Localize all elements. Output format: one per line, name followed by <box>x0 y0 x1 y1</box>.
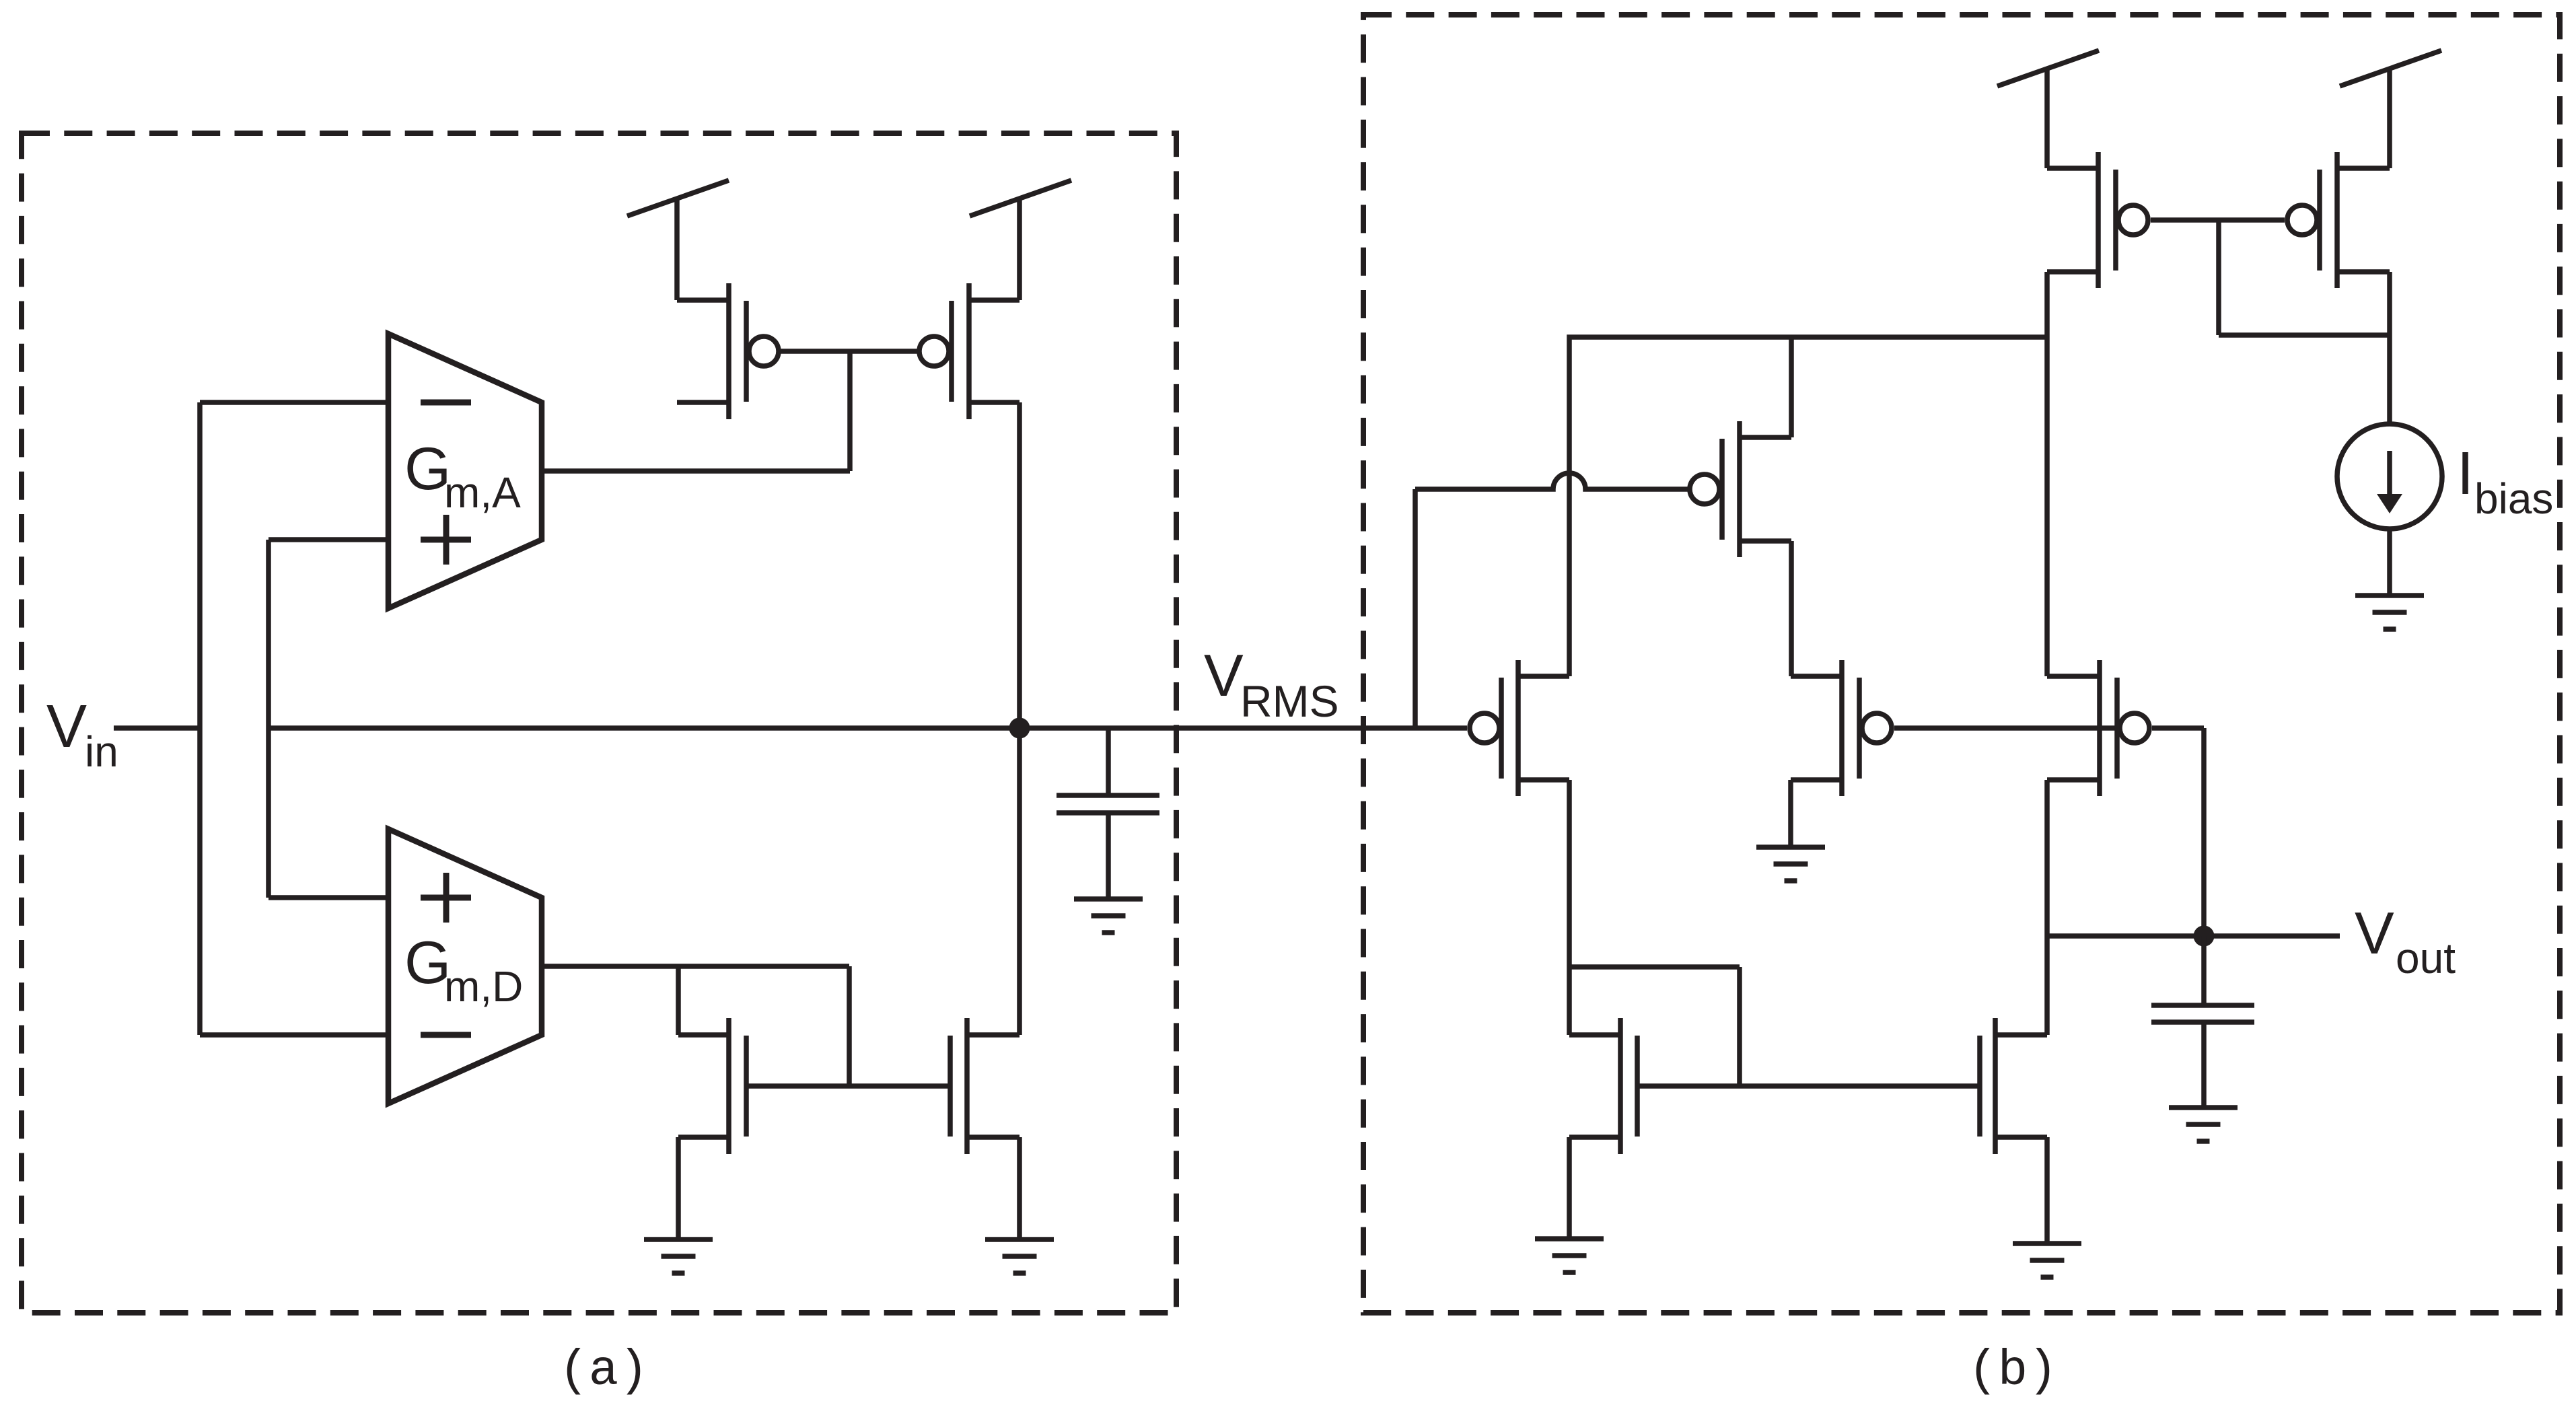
wire Gm,A inverting input <box>200 400 388 405</box>
svg-text:I: I <box>2457 440 2474 507</box>
wire P1 diode connection <box>847 351 853 471</box>
label Gm,A <box>404 435 521 517</box>
transistor N2 (NMOS) <box>950 1018 1019 1154</box>
wire P2 drain / N2 drain vertical <box>1017 402 1022 1035</box>
wire P5 source rail <box>1569 337 2046 676</box>
svg-text:V: V <box>46 693 87 760</box>
wire P5 drain vertical <box>1567 780 1572 1035</box>
ground of N1 <box>644 1239 713 1273</box>
ground of Ibias <box>2355 596 2424 629</box>
junction node Vout <box>2194 926 2215 947</box>
wire N4 source <box>2044 1137 2050 1244</box>
node VRMS label <box>1204 642 1339 726</box>
VDD supply of P8 <box>1997 50 2099 168</box>
wire Gm,A non-inverting input <box>269 537 388 542</box>
ground of C1 <box>1074 899 1143 933</box>
transistor P8 (PMOS) <box>2047 152 2148 288</box>
ground of C2 <box>2169 1108 2238 1141</box>
wire Gm,D non-inverting input <box>269 895 388 900</box>
ground of N4 <box>2013 1244 2081 1277</box>
node Vin label <box>46 693 118 776</box>
svg-text:in: in <box>85 727 118 776</box>
wire P1-P2 gate link <box>780 349 918 354</box>
wire P9 drain to Ibias <box>2387 272 2392 424</box>
op-amp Gm,D <box>388 829 542 1104</box>
svg-text:(a): (a) <box>559 1343 648 1400</box>
wire P7 gate to Vout <box>2152 728 2204 936</box>
svg-text:RMS: RMS <box>1240 676 1339 726</box>
block (a) dashed box <box>22 133 1176 1313</box>
wire Gm,D inverting input <box>200 1032 388 1038</box>
wire Gm,D output <box>542 964 849 969</box>
VDD supply of P9 <box>2340 50 2441 168</box>
label Gm,D <box>404 929 523 1011</box>
wire N1 drain connection <box>676 966 681 1035</box>
wire N3-N4 gate link <box>1637 1083 1980 1089</box>
transistor N1 (NMOS) <box>678 1018 746 1154</box>
transistor N3 (NMOS) <box>1569 1018 1637 1154</box>
wire P6 drain to ground <box>1788 780 1793 847</box>
wire non-inverting input chain <box>266 540 271 898</box>
wire P8 drain to P7 source <box>2044 272 2050 676</box>
svg-text:V: V <box>2355 900 2394 966</box>
svg-text:V: V <box>1204 642 1244 709</box>
wire P5 gate-row feed with hop <box>1412 489 1418 728</box>
transistor P7 (PMOS) <box>2047 660 2149 796</box>
capacitor C2 <box>2151 936 2254 1108</box>
svg-text:(b): (b) <box>1968 1343 2057 1400</box>
transistor P6 (PMOS) <box>1791 660 1892 796</box>
op-amp Gm,A <box>388 334 542 608</box>
wire N2 source <box>1017 1137 1022 1239</box>
wire P7 drain to N4 drain <box>2044 780 2050 1035</box>
wire N1 diode connection <box>847 966 852 1086</box>
transistor P1 (PMOS) <box>677 283 779 419</box>
wire P6 gate to P7 gate <box>1894 725 2117 731</box>
wire inverting input chain <box>197 402 203 1035</box>
wire P8-P9 gate link <box>2151 217 2285 223</box>
wire Vout <box>2047 933 2340 939</box>
wire P4 source vertical <box>1789 337 1794 437</box>
transistor P9 (PMOS) <box>2287 152 2390 288</box>
ground of N2 <box>985 1239 1054 1273</box>
junction node VRMS <box>1009 718 1030 739</box>
wire mirror gate to P9 drain <box>2219 220 2390 335</box>
ground of P6 <box>1756 847 1825 881</box>
transistor P5 (PMOS, VRMS input) <box>1470 660 1569 796</box>
transistor P2 (PMOS) <box>919 283 1019 419</box>
wire P4 drain vertical <box>1789 541 1794 676</box>
block (b) dashed box <box>1363 15 2560 1313</box>
node Vout label <box>2355 900 2456 982</box>
wire N1 source <box>676 1137 681 1239</box>
VDD supply of P1 <box>627 180 729 300</box>
wire N3 diode branch <box>1569 967 1740 1086</box>
wire Ibias to ground <box>2387 529 2392 596</box>
svg-text:out: out <box>2396 934 2456 982</box>
current source Ibias <box>2337 424 2442 529</box>
capacitor C1 <box>1057 728 1159 899</box>
wire Gm,A output <box>542 468 850 474</box>
svg-text:m,A: m,A <box>444 468 521 517</box>
ground of N3 <box>1535 1239 1604 1272</box>
wire N3 source <box>1567 1137 1572 1239</box>
transistor N4 (NMOS) <box>1980 1018 2047 1154</box>
svg-text:bias: bias <box>2474 474 2553 523</box>
wire VRMS feedback line <box>269 725 1467 731</box>
label Ibias <box>2457 440 2553 523</box>
svg-text:m,D: m,D <box>444 962 523 1011</box>
VDD supply of P2 <box>970 180 1071 300</box>
transistor P4 (PMOS) <box>1690 421 1791 557</box>
wire Vin lead <box>114 725 200 731</box>
wire N1-N2 gate link <box>746 1083 950 1089</box>
